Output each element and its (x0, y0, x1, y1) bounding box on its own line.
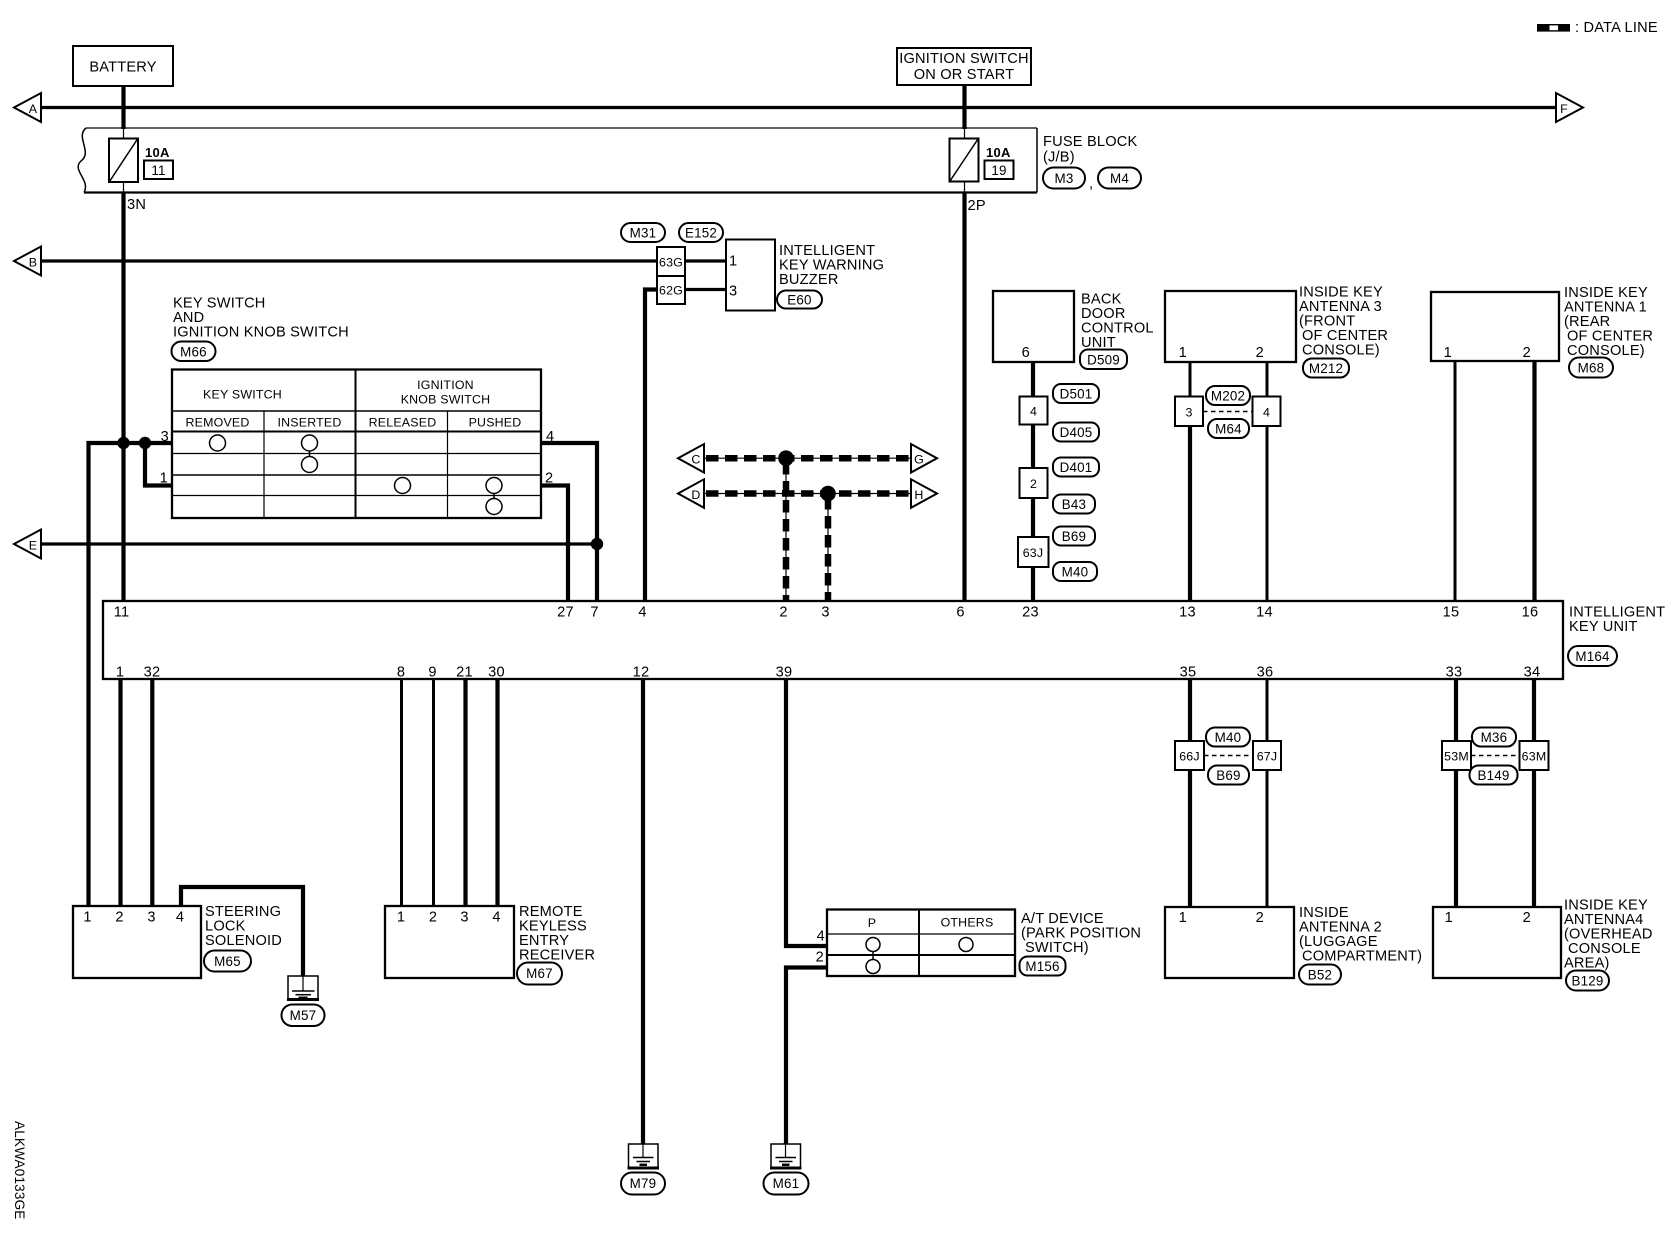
wire key unit pin 9 to receiver pin 2 (432, 679, 435, 906)
svg-text:M3: M3 (1054, 171, 1073, 186)
svg-text:E60: E60 (787, 293, 811, 308)
svg-text:RECEIVER: RECEIVER (519, 948, 595, 964)
wire key unit pin 35 to connector 66J (1188, 679, 1192, 741)
wire key unit pin 39 to A/T device pin 4 (786, 679, 827, 946)
wire connector 4 to connector 2 (1031, 425, 1035, 469)
connector pair M40/B69 boxes 66J and 67J (1175, 728, 1281, 785)
arrow B (14, 247, 41, 276)
svg-text:INSERTED: INSERTED (277, 416, 341, 430)
svg-text:2: 2 (429, 910, 437, 926)
wire 63G to buzzer pin 1 (685, 259, 726, 262)
junction pin1 branch (139, 437, 151, 449)
arrow D (678, 479, 704, 508)
svg-text:6: 6 (1022, 345, 1030, 361)
svg-text:67J: 67J (1257, 750, 1278, 764)
wire key unit pin 30 to receiver pin 4 (495, 679, 499, 906)
svg-text:4: 4 (1030, 405, 1037, 419)
svg-text:2: 2 (816, 950, 824, 966)
connector box 62G (657, 276, 685, 304)
wire antenna3 pin2 to connector 4 (1266, 362, 1269, 397)
svg-text:KEY SWITCH: KEY SWITCH (203, 388, 282, 402)
svg-text:PUSHED: PUSHED (469, 416, 522, 430)
svg-text:M65: M65 (214, 954, 241, 969)
svg-text:10A: 10A (145, 145, 170, 160)
svg-text:B52: B52 (1308, 968, 1332, 983)
svg-text:M164: M164 (1575, 649, 1610, 664)
bus line A (41, 106, 1556, 109)
inside key antenna 3 M212 (1165, 285, 1388, 378)
svg-text:10A: 10A (986, 145, 1011, 160)
arrow C (678, 444, 704, 473)
svg-text:SWITCH): SWITCH) (1025, 940, 1089, 956)
svg-text:F: F (1560, 102, 1568, 116)
svg-text:M64: M64 (1215, 422, 1242, 437)
svg-text:53M: 53M (1444, 750, 1469, 764)
svg-text:M67: M67 (526, 966, 553, 981)
svg-text:M66: M66 (180, 345, 207, 360)
svg-text:4: 4 (492, 910, 500, 926)
inside key antenna 4 B129 (1433, 898, 1653, 991)
svg-text:2: 2 (779, 605, 787, 621)
arrow F (1556, 93, 1583, 122)
wire solenoid pin 4 to ground M57 (181, 887, 303, 976)
svg-text:KNOB SWITCH: KNOB SWITCH (401, 393, 491, 407)
svg-text:IGNITION: IGNITION (417, 378, 474, 392)
svg-text:1: 1 (729, 254, 737, 270)
bus line E (41, 542, 597, 545)
svg-text:3: 3 (729, 284, 737, 300)
svg-text:3: 3 (147, 910, 155, 926)
svg-text:1: 1 (1179, 910, 1187, 926)
svg-text:19: 19 (991, 163, 1006, 178)
wire connector 4 to key unit pin 14 (1266, 426, 1269, 601)
svg-text:11: 11 (151, 163, 165, 178)
junction E on pin7 wire (591, 538, 603, 550)
arrow A (14, 93, 41, 122)
intelligent key warning buzzer E60 (726, 240, 884, 311)
svg-text:BATTERY: BATTERY (89, 60, 156, 76)
svg-text:12: 12 (633, 665, 650, 681)
A/T device park position switch M156 (816, 910, 1141, 977)
svg-text:34: 34 (1524, 665, 1541, 681)
svg-text:,: , (1089, 176, 1093, 192)
svg-text:M68: M68 (1578, 361, 1605, 376)
svg-text:39: 39 (776, 665, 793, 681)
wire key switch pin 3 to battery feed (89, 443, 173, 906)
svg-text:IGNITION SWITCH: IGNITION SWITCH (899, 51, 1028, 67)
svg-text:M31: M31 (630, 226, 657, 241)
svg-text:M40: M40 (1215, 730, 1242, 745)
wire key unit pin 21 to receiver pin 3 (463, 679, 467, 906)
wire key unit pin 1 to solenoid pin 2 (118, 679, 122, 906)
svg-text:(J/B): (J/B) (1043, 150, 1075, 166)
arrow H (911, 479, 937, 508)
wire 67J to antenna2 pin 2 (1266, 770, 1269, 907)
svg-text:D405: D405 (1060, 425, 1093, 440)
svg-text:3: 3 (1185, 406, 1192, 420)
svg-text:2: 2 (1256, 345, 1264, 361)
fuse 10A #11 (109, 139, 173, 183)
wire key unit pin 34 to connector 63M (1532, 679, 1536, 741)
svg-text:M57: M57 (290, 1008, 317, 1023)
data line C-G (704, 457, 911, 459)
arrow G (911, 444, 937, 473)
bus line B (41, 259, 657, 262)
svg-text:1: 1 (1444, 345, 1452, 361)
fuse 10A #19 (950, 139, 1014, 182)
svg-text:6: 6 (956, 605, 964, 621)
wire battery to fuse 11 (121, 86, 125, 601)
svg-text:ON OR START: ON OR START (914, 67, 1015, 83)
svg-text:32: 32 (144, 665, 161, 681)
svg-text:COMPARTMENT): COMPARTMENT) (1302, 949, 1422, 965)
svg-text:M156: M156 (1025, 959, 1059, 974)
data wire down to key unit pin 3 (827, 494, 829, 602)
connector box 2 (D401/B43) (1020, 458, 1100, 514)
svg-text:2: 2 (1030, 477, 1037, 491)
wire A/T device pin 2 to ground M61 (786, 968, 827, 1145)
svg-text:1: 1 (1445, 910, 1453, 926)
svg-text:33: 33 (1446, 665, 1463, 681)
wire 63J to key unit pin 23 (1031, 567, 1035, 601)
svg-text:E152: E152 (685, 226, 717, 241)
wire 63M to antenna4 pin 2 (1532, 770, 1536, 907)
key switch table (160, 370, 555, 519)
battery (73, 46, 173, 86)
svg-text:H: H (914, 488, 923, 502)
svg-text:21: 21 (456, 665, 473, 681)
svg-text:B: B (29, 255, 37, 269)
svg-text:23: 23 (1022, 605, 1039, 621)
svg-text:2: 2 (1523, 345, 1531, 361)
svg-text:B43: B43 (1062, 497, 1086, 512)
connector box 4 (D501/D405) (1020, 384, 1100, 442)
inside antenna 2 B52 (1165, 905, 1422, 985)
svg-text:66J: 66J (1179, 750, 1200, 764)
svg-text:: DATA LINE: : DATA LINE (1575, 20, 1658, 36)
svg-text:63M: 63M (1522, 750, 1547, 764)
wire key unit pin 8 to receiver pin 1 (400, 679, 403, 906)
wire antenna1 pin1 to key unit pin 15 (1454, 361, 1457, 601)
wire key unit pin 36 to connector 67J (1266, 679, 1269, 741)
svg-text:FUSE BLOCK: FUSE BLOCK (1043, 134, 1138, 150)
key switch and ignition knob switch label M66 (172, 296, 349, 362)
svg-text:B129: B129 (1571, 974, 1603, 989)
connector E152 (679, 223, 723, 242)
wire connector 3 to key unit pin 13 (1188, 426, 1192, 601)
ground M79 (621, 1144, 665, 1195)
svg-text:SOLENOID: SOLENOID (205, 933, 282, 949)
svg-text:KEY UNIT: KEY UNIT (1569, 619, 1638, 635)
wire 62G to buzzer pin 3 (685, 288, 726, 291)
wire key unit pin 33 to connector 53M (1454, 679, 1458, 741)
svg-text:2P: 2P (968, 198, 986, 214)
wire antenna3 pin1 to connector 3 (1189, 362, 1192, 397)
back door control unit D509 (993, 291, 1154, 369)
data line legend (1537, 20, 1658, 36)
data wire down to key unit pin 2 (785, 458, 787, 601)
svg-text:P: P (868, 916, 876, 930)
svg-text:36: 36 (1257, 665, 1274, 681)
svg-text:27: 27 (557, 605, 574, 621)
svg-text:RELEASED: RELEASED (369, 416, 437, 430)
svg-text:62G: 62G (659, 284, 683, 298)
ground M61 (764, 1144, 809, 1195)
intelligent key unit M164 (103, 601, 1665, 681)
svg-text:C: C (691, 453, 700, 467)
connector box 63G (657, 247, 685, 276)
svg-text:E: E (29, 538, 37, 552)
svg-text:3: 3 (460, 910, 468, 926)
svg-text:B149: B149 (1477, 768, 1509, 783)
svg-text:M36: M36 (1481, 730, 1508, 745)
connector pair M36/B149 boxes 53M and 63M (1442, 728, 1549, 785)
wire 62G left down to key unit pin 4 (645, 290, 657, 602)
svg-text:OTHERS: OTHERS (941, 916, 994, 930)
ignition switch (897, 48, 1031, 85)
svg-text:D501: D501 (1060, 387, 1093, 402)
svg-text:63J: 63J (1023, 546, 1044, 560)
svg-text:D401: D401 (1060, 460, 1093, 475)
svg-text:11: 11 (114, 605, 130, 621)
steering lock solenoid M65 (73, 904, 282, 978)
svg-text:M212: M212 (1309, 361, 1343, 376)
svg-text:3N: 3N (127, 197, 146, 213)
junction D line to pin 3 (820, 486, 836, 502)
svg-text:4: 4 (176, 910, 184, 926)
wire key switch pin 1 (145, 443, 172, 486)
fuse block label M3 M4 (1043, 134, 1141, 192)
remote keyless entry receiver M67 (385, 904, 595, 985)
svg-text:REMOVED: REMOVED (185, 416, 249, 430)
svg-text:M61: M61 (773, 1176, 800, 1191)
svg-text:D509: D509 (1087, 353, 1120, 368)
svg-text:1: 1 (83, 910, 91, 926)
connector pair M202/M64 boxes 3 and 4 (1175, 386, 1281, 438)
wire back door unit to connector 4 (1031, 362, 1035, 397)
arrow E (14, 530, 41, 559)
svg-text:CONSOLE): CONSOLE) (1302, 343, 1380, 359)
wire ignition knob pin 4 to key unit pin 7 (541, 443, 597, 601)
svg-text:M4: M4 (1110, 171, 1129, 186)
wire 53M to antenna4 pin 1 (1454, 770, 1458, 907)
svg-text:1: 1 (1179, 345, 1187, 361)
svg-text:2: 2 (115, 910, 123, 926)
wire key unit pin 12 to ground M79 (641, 679, 645, 1144)
svg-text:M202: M202 (1211, 389, 1245, 404)
svg-text:63G: 63G (659, 256, 683, 270)
ground M57 (282, 976, 325, 1026)
svg-text:14: 14 (1256, 605, 1273, 621)
connector box 63J (B69/M40) (1018, 527, 1097, 582)
wire 66J to antenna2 pin 1 (1188, 770, 1192, 907)
wire connector 2 to connector 63J (1031, 498, 1035, 537)
wire ignition switch to fuse 19 (962, 85, 966, 601)
svg-text:4: 4 (1263, 406, 1270, 420)
wire key unit pin 32 to solenoid pin 3 (150, 679, 154, 906)
svg-text:2: 2 (1256, 910, 1264, 926)
svg-text:D: D (691, 488, 700, 502)
svg-text:1: 1 (397, 910, 405, 926)
svg-text:9: 9 (428, 665, 436, 681)
svg-text:B69: B69 (1216, 768, 1240, 783)
svg-text:3: 3 (821, 605, 829, 621)
svg-text:AREA): AREA) (1564, 956, 1610, 972)
svg-text:35: 35 (1180, 665, 1197, 681)
svg-text:M40: M40 (1062, 565, 1089, 580)
svg-text:30: 30 (488, 665, 505, 681)
svg-text:8: 8 (397, 665, 405, 681)
svg-text:4: 4 (817, 929, 825, 945)
svg-text:A: A (29, 102, 38, 116)
wire ignition knob pin 2 to key unit pin 27 (541, 486, 568, 602)
svg-text:13: 13 (1179, 605, 1196, 621)
junction C line to pin 2 (778, 450, 794, 466)
inside key antenna 1 M68 (1431, 285, 1653, 378)
svg-text:M79: M79 (630, 1176, 657, 1191)
svg-text:2: 2 (1523, 910, 1531, 926)
svg-text:1: 1 (116, 665, 124, 681)
svg-text:4: 4 (638, 605, 646, 621)
fuse block (J/B) band (78, 128, 1037, 193)
svg-text:BUZZER: BUZZER (779, 272, 839, 288)
data line D-H (704, 493, 911, 495)
svg-text:B69: B69 (1062, 529, 1086, 544)
svg-text:ALKWA0133GE: ALKWA0133GE (12, 1121, 27, 1220)
connector M31 (621, 223, 665, 242)
svg-text:16: 16 (1522, 605, 1539, 621)
svg-text:IGNITION KNOB SWITCH: IGNITION KNOB SWITCH (173, 325, 349, 341)
wire antenna1 pin2 to key unit pin 16 (1532, 361, 1536, 601)
svg-text:7: 7 (590, 605, 598, 621)
svg-text:15: 15 (1443, 605, 1460, 621)
svg-text:G: G (914, 453, 924, 467)
junction battery feed (117, 437, 129, 449)
